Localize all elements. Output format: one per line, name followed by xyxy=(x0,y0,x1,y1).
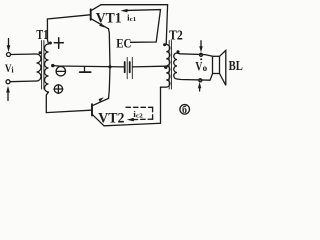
svg-text:EC: EC xyxy=(116,37,131,51)
svg-text:VT1: VT1 xyxy=(96,10,122,26)
svg-text:б: б xyxy=(182,105,187,116)
transformer T2 secondary winding xyxy=(174,53,177,79)
svg-text:o: o xyxy=(203,63,208,73)
top rail wire: VT1 collector to T2 xyxy=(101,5,168,45)
VT1 emitter riser wire xyxy=(109,29,111,67)
output terminal top xyxy=(200,53,203,56)
transformer T1 core xyxy=(42,41,44,90)
T1 primary phase dot xyxy=(39,51,42,54)
wire T2 secondary bottom to speaker xyxy=(177,74,213,81)
output arrow top xyxy=(199,41,202,53)
T2 primary phase dot xyxy=(163,43,166,46)
transformer T2 core xyxy=(169,41,171,90)
transistor VT2 base bar xyxy=(91,104,93,115)
input arrow bottom xyxy=(6,86,10,101)
mid rail wire: battery to T2 tap xyxy=(132,65,165,68)
input terminal bottom xyxy=(6,80,10,84)
wire T1 secondary top to VT1 base xyxy=(47,15,90,44)
VT1 emitter with arrow xyxy=(91,19,109,29)
polarity plus near T1 secondary top xyxy=(54,38,63,48)
polarity circled minus on mid rail xyxy=(56,67,65,76)
input arrow top xyxy=(7,39,11,53)
speaker BL xyxy=(213,50,226,85)
wire T1 secondary bottom to VT2 base xyxy=(46,92,91,113)
T2 center tap junction dot xyxy=(164,66,167,69)
VT1 collector xyxy=(91,5,101,11)
output terminal bottom xyxy=(199,79,202,82)
svg-text:BL: BL xyxy=(229,59,243,74)
output arrow bottom xyxy=(198,82,201,91)
ground xyxy=(80,67,91,72)
VT2 emitter riser wire xyxy=(109,67,111,99)
wire input top to T1 primary xyxy=(11,53,37,56)
svg-text:T2: T2 xyxy=(169,28,183,43)
battery EC xyxy=(125,58,133,79)
T1 secondary phase dot xyxy=(49,42,52,45)
T2 primary bottom lead xyxy=(161,86,167,88)
bottom rail wire: VT2 collector to T2 xyxy=(104,87,161,126)
input terminal top xyxy=(7,53,11,57)
transformer T2 primary winding xyxy=(166,45,170,88)
ic2 arrowhead xyxy=(127,118,134,122)
figure label (b) circled xyxy=(180,105,190,116)
svg-text:T1: T1 xyxy=(36,28,48,43)
VT2 emitter with arrow xyxy=(92,97,109,106)
wire input bottom to T1 primary xyxy=(10,80,37,83)
svg-text:VT2: VT2 xyxy=(98,110,124,126)
polarity circled plus below xyxy=(54,85,63,94)
transistor VT1 base bar xyxy=(90,9,92,19)
wire T2 secondary top to speaker xyxy=(177,53,213,56)
current arrow ic2 hook dashed xyxy=(126,107,153,119)
VT2 collector xyxy=(92,114,104,126)
T1 center tap junction dot xyxy=(51,64,54,67)
emitter rail junction dot xyxy=(108,65,111,68)
mid rail wire: T1 tap to battery xyxy=(53,66,124,67)
current arrow ic1 hook xyxy=(121,9,161,42)
transformer T1 secondary winding xyxy=(45,44,49,92)
transformer T1 primary winding xyxy=(37,54,42,81)
T2 secondary phase dot xyxy=(177,50,180,53)
